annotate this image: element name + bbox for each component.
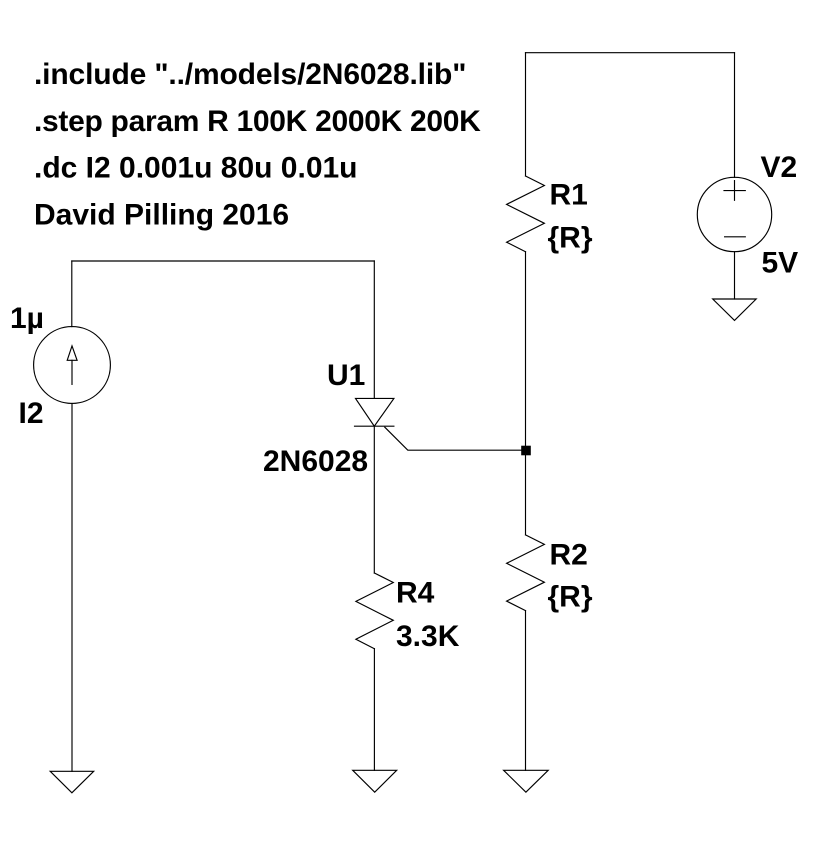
svg-text:David Pilling 2016: David Pilling 2016: [34, 199, 289, 232]
svg-text:{R}: {R}: [548, 581, 593, 614]
transistor U1 2N6028: [355, 398, 522, 450]
wire top-left rail: [72, 260, 375, 262]
wire V2 bottom: [734, 252, 736, 299]
wire I2 top: [71, 261, 73, 327]
svg-text:2N6028: 2N6028: [263, 445, 368, 478]
svg-text:.include "../models/2N6028.lib: .include "../models/2N6028.lib": [34, 58, 466, 91]
ground R4: [353, 770, 397, 792]
svg-text:I2: I2: [19, 397, 44, 430]
resistor R4: [356, 573, 393, 649]
wire U1 cathode: [373, 426, 375, 573]
svg-text:U1: U1: [327, 359, 365, 392]
svg-text:R4: R4: [396, 577, 435, 610]
wire I2 bottom: [71, 403, 73, 771]
svg-text:5V: 5V: [762, 246, 799, 279]
wire V2 top: [734, 53, 736, 178]
current source I2: [34, 327, 111, 404]
voltage source V2: [697, 177, 771, 251]
svg-text:V2: V2: [761, 151, 798, 184]
resistor R2: [507, 535, 545, 611]
svg-text:{R}: {R}: [548, 221, 593, 254]
resistor R1: [507, 176, 545, 252]
svg-text:1µ: 1µ: [10, 302, 44, 335]
node junction: [521, 446, 531, 456]
wire R1 to node: [525, 252, 527, 451]
wire R4 bottom: [373, 649, 375, 771]
svg-text:3.3K: 3.3K: [396, 620, 460, 653]
svg-text:R1: R1: [550, 179, 588, 212]
wire U1 anode: [373, 261, 375, 398]
ground I2: [50, 771, 93, 793]
ground R2: [504, 770, 549, 792]
wire top-right rail: [526, 52, 735, 54]
svg-text:R2: R2: [550, 539, 588, 572]
wire R1 top: [525, 53, 527, 176]
wire R2 bottom: [525, 611, 527, 771]
svg-text:.step param R 100K 2000K 200K: .step param R 100K 2000K 200K: [34, 105, 481, 138]
ground V2: [713, 299, 757, 320]
wire node to R2: [525, 450, 527, 535]
svg-text:.dc I2 0.001u 80u 0.01u: .dc I2 0.001u 80u 0.01u: [34, 152, 358, 185]
